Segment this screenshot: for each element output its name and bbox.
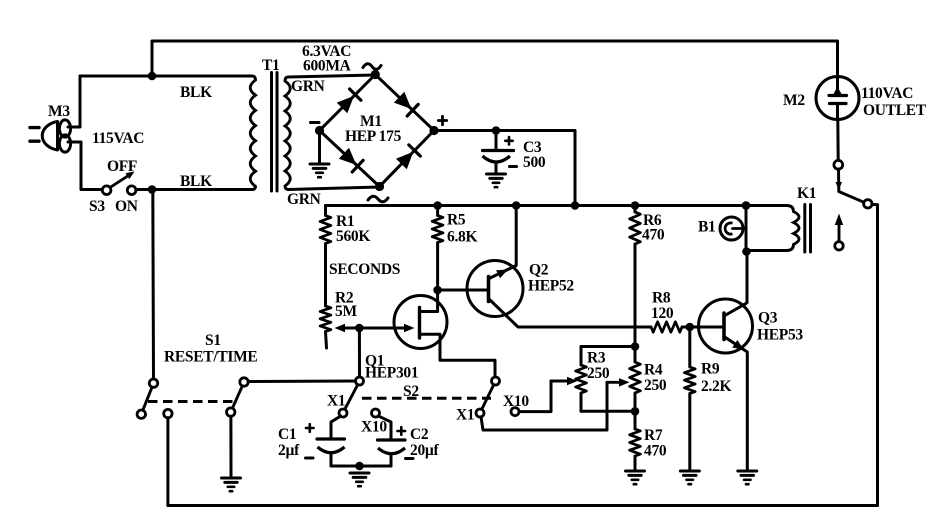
transistor Q1 source lead — [420, 334, 496, 377]
outlet M2 inner stem bottom — [836, 105, 839, 120]
rectifier M1 leg left-bottom — [320, 131, 380, 187]
ground bridge left — [310, 164, 329, 177]
wire secondary top to bridge — [289, 75, 376, 77]
label 470 R7 — [644, 443, 667, 460]
capacitor C3 lower stem — [495, 164, 498, 173]
label minus bridge — [311, 121, 320, 124]
svg-text:K1: K1 — [797, 185, 816, 202]
wire R3 left top — [580, 347, 583, 366]
svg-text:Q3: Q3 — [758, 310, 778, 327]
svg-text:OUTLET: OUTLET — [863, 102, 927, 119]
transistor Q3 emitter — [724, 337, 747, 471]
node bridge top — [371, 70, 380, 79]
svg-text:120: 120 — [651, 305, 674, 322]
node R4 bottom — [631, 407, 640, 416]
switch S2 pivot A — [356, 377, 364, 385]
svg-text:R3: R3 — [587, 350, 606, 367]
svg-text:ON: ON — [115, 198, 138, 215]
label RESET/TIME — [164, 349, 257, 366]
label C1 minus — [306, 457, 314, 460]
ground C1C2 — [350, 473, 369, 486]
label 6.8K — [447, 229, 477, 246]
label C2 — [410, 426, 429, 443]
node relay coil bottom — [742, 247, 751, 256]
wire R2 tail — [326, 332, 327, 349]
label M2 — [783, 92, 805, 109]
potentiometer R2 wiper — [335, 324, 360, 332]
wire X10 to R3 wiper — [519, 381, 551, 412]
diode M1 upper-left — [337, 89, 361, 113]
wire R5 bottom — [436, 243, 439, 291]
label Q3 — [758, 310, 778, 327]
wire R6 top — [634, 206, 637, 213]
label HEP 175 — [345, 128, 402, 145]
label OFF — [107, 158, 137, 175]
wire R3 top — [581, 345, 635, 348]
wire C1C2 bottom rail — [331, 465, 391, 468]
relay K1 coil — [746, 206, 799, 251]
lamp B1 lead — [733, 227, 747, 230]
transistor Q2 base bar — [487, 277, 491, 302]
transistor Q2 circle — [467, 261, 523, 317]
label HEP301 — [365, 365, 418, 382]
svg-text:R9: R9 — [701, 361, 720, 378]
wire plus rail — [434, 131, 575, 206]
label C3 minus — [510, 165, 517, 168]
wire Q2 base — [438, 289, 489, 292]
switch S1 pivot B — [240, 378, 248, 386]
label HEP53 — [757, 327, 803, 344]
transistor Q3 emitter arrow — [732, 340, 744, 350]
svg-text:6.8K: 6.8K — [447, 229, 477, 246]
node bus Q2 — [512, 201, 521, 210]
label X10 left — [361, 419, 387, 436]
resistor R3 — [576, 365, 587, 393]
label 560K — [336, 228, 370, 245]
svg-text:X10: X10 — [361, 419, 387, 436]
relay lever stub — [837, 169, 840, 191]
node Q1 drain junction — [433, 286, 442, 295]
svg-text:B1: B1 — [698, 219, 716, 236]
rectifier M1 leg top-right — [375, 75, 434, 131]
svg-text:X1: X1 — [456, 407, 474, 424]
plug M3 prong upper — [30, 126, 39, 129]
svg-text:GRN: GRN — [287, 191, 321, 208]
resistor R1 — [320, 216, 331, 244]
label 470 — [642, 227, 665, 244]
wire R4 bottom — [634, 393, 637, 411]
wire R5 top — [436, 206, 439, 216]
rectifier M1 leg bottom-right — [380, 131, 435, 187]
label tilde bottom — [368, 196, 388, 202]
svg-text:X1: X1 — [327, 393, 345, 410]
node bus C3 branch — [571, 201, 580, 210]
label X1 left — [327, 393, 345, 410]
svg-text:5M: 5M — [335, 303, 357, 320]
switch S2 contact X1 right — [476, 409, 484, 417]
switch S1 pivot A — [149, 379, 157, 387]
svg-text:C2: C2 — [410, 426, 429, 443]
ground R7 — [626, 471, 645, 484]
wire main bus — [326, 204, 747, 207]
switch S3 lever arrowhead — [126, 172, 135, 180]
outlet M2 inner stem top — [836, 77, 839, 93]
wire timing node down — [358, 328, 361, 377]
resistor R8 — [651, 322, 682, 332]
label M3 — [48, 103, 70, 120]
capacitor C2 stem — [390, 456, 393, 466]
ground R9 — [680, 471, 699, 484]
label Q1 — [365, 353, 384, 370]
capacitor C3 stem — [495, 131, 498, 150]
label C1 value — [278, 442, 300, 459]
label Q2 — [529, 262, 549, 279]
svg-text:M2: M2 — [783, 92, 805, 109]
node R2 wiper junction — [355, 324, 364, 333]
wire R3 left bottom — [580, 393, 583, 411]
svg-text:S1: S1 — [205, 332, 221, 349]
transistor Q3 circle — [699, 299, 753, 353]
svg-text:Q2: Q2 — [529, 262, 549, 279]
transistor Q1 drain lead — [420, 290, 438, 312]
label C1 plus — [306, 424, 314, 432]
potentiometer R4 wiper — [607, 378, 630, 387]
svg-text:20µf: 20µf — [410, 442, 440, 459]
switch S3 lever — [110, 174, 131, 188]
label C3 — [523, 139, 542, 156]
switch S1 contact A2 — [164, 409, 172, 417]
wire R9 top — [688, 327, 691, 367]
node bridge bottom — [375, 182, 384, 191]
switch S2 contact X10 left — [372, 409, 380, 417]
label SECONDS — [329, 261, 400, 278]
svg-text:2µf: 2µf — [278, 442, 300, 459]
wire secondary bottom to bridge — [289, 187, 380, 190]
node bus R5 — [433, 201, 442, 210]
label C1 — [278, 426, 296, 443]
transformer T1 core — [272, 73, 278, 192]
plug M3 ring upper — [59, 120, 70, 137]
relay armature arrow — [835, 214, 843, 242]
svg-text:250: 250 — [587, 365, 610, 382]
label X10 right — [503, 393, 529, 410]
label T1 — [262, 57, 280, 74]
rectifier M1 leg left-top — [320, 75, 376, 131]
node R3R4 top — [631, 342, 640, 351]
svg-text:HEP53: HEP53 — [757, 327, 803, 344]
label plus bridge — [438, 116, 446, 124]
wire relay contact to right rail — [872, 203, 878, 206]
transformer T1 secondary winding — [285, 77, 290, 190]
wire S3 junction down — [151, 190, 155, 380]
node junction top-left — [148, 72, 157, 81]
outlet M2 inner bar1 — [829, 94, 847, 97]
label tilde top — [363, 64, 381, 70]
mechanical link S2 dashed — [362, 397, 491, 400]
svg-text:500: 500 — [523, 154, 546, 171]
diode M1 lower-left — [339, 148, 363, 172]
svg-text:GRN: GRN — [291, 78, 325, 95]
label R3 — [587, 350, 606, 367]
diode M1 lower-right — [396, 145, 420, 169]
wire X10 to C2 — [378, 416, 391, 439]
transistor Q1 gate lead — [344, 324, 415, 332]
switch S1 lever A — [143, 387, 152, 410]
label 110VAC — [861, 85, 913, 102]
label HEP52 — [528, 278, 574, 295]
node bus R6 — [631, 201, 640, 210]
wire BLK upper — [80, 75, 252, 78]
label 120 — [651, 305, 674, 322]
svg-text:M3: M3 — [48, 103, 70, 120]
node C1C2 ground — [355, 462, 364, 471]
ground C3 — [487, 174, 506, 187]
label C3 plus — [505, 137, 512, 144]
wire relay branch — [745, 206, 748, 252]
resistor R4 — [630, 362, 641, 393]
transistor Q2 collector — [489, 206, 516, 279]
switch S1 contact B — [227, 408, 235, 416]
svg-text:S2: S2 — [403, 383, 419, 400]
svg-text:X10: X10 — [503, 393, 529, 410]
label R9 — [701, 361, 720, 378]
wire R7 top — [634, 411, 637, 429]
node bus relay — [742, 201, 751, 210]
label M1 — [360, 113, 382, 130]
label S1 — [205, 332, 221, 349]
label K1 — [797, 185, 816, 202]
resistor R5 — [432, 216, 443, 243]
lamp B1 circle — [720, 217, 743, 240]
resistor R6 — [630, 212, 641, 244]
svg-text:R7: R7 — [644, 427, 663, 444]
relay contact circle — [864, 200, 872, 208]
node bridge right — [429, 126, 438, 135]
wire R1-R2 — [324, 244, 327, 307]
diode M1 upper-right — [394, 92, 418, 116]
switch S2 pivot B — [492, 377, 500, 385]
svg-text:470: 470 — [642, 227, 665, 244]
svg-text:110VAC: 110VAC — [861, 85, 913, 102]
label X1 right — [456, 407, 474, 424]
switch S2 lever B — [482, 385, 494, 409]
mechanical link S1 dashed — [148, 400, 236, 403]
label R5 — [447, 212, 466, 229]
label OUTLET — [863, 102, 927, 119]
label S3 ON — [89, 198, 138, 215]
wire top rail — [152, 41, 838, 77]
wire plug lower lead — [68, 142, 102, 190]
svg-text:C1: C1 — [278, 426, 296, 443]
switch S2 lever A — [345, 385, 358, 410]
potentiometer R3 wiper — [551, 377, 578, 385]
wire R6 down — [634, 244, 637, 347]
resistor R7 — [630, 429, 641, 456]
svg-text:115VAC: 115VAC — [92, 130, 144, 147]
wire R1 top — [324, 206, 327, 216]
capacitor C2 curved plate — [378, 448, 405, 454]
ground bridge left stem — [318, 131, 321, 164]
ground Q3 — [738, 471, 757, 484]
label C2 value — [410, 442, 440, 459]
lamp B1 inner — [725, 223, 732, 234]
wire R4 top — [634, 347, 637, 363]
outlet M2 inner wedge — [834, 87, 842, 95]
svg-text:S3: S3 — [89, 198, 105, 215]
transistor Q3 base bar — [722, 313, 726, 340]
capacitor C2 top plate — [378, 438, 406, 441]
svg-text:R4: R4 — [644, 362, 663, 379]
label BLK lower — [180, 173, 212, 190]
transistor Q2 collector arrow — [496, 270, 508, 279]
transistor Q1 circle — [394, 296, 447, 349]
label 6.3VAC — [302, 43, 351, 60]
capacitor C1 top plate — [317, 437, 345, 440]
wire M2 to relay contact — [836, 120, 839, 161]
label S2 — [403, 383, 419, 400]
capacitor C3 top plate — [483, 149, 514, 152]
label R6 — [643, 212, 662, 229]
label GRN upper — [291, 78, 325, 95]
switch S2 contact X1 left — [339, 409, 347, 417]
wire Q3 base — [690, 326, 724, 329]
label 600MA — [303, 58, 352, 75]
label 115VAC — [92, 130, 144, 147]
wire BLK lower — [136, 188, 252, 191]
relay contact pivot circle — [834, 160, 843, 169]
wire R7 bottom — [634, 456, 637, 470]
relay armature circle — [835, 242, 843, 250]
svg-text:470: 470 — [644, 443, 667, 460]
wire S1 pivot B to timing node — [248, 380, 355, 384]
plug M3 body — [42, 122, 57, 151]
capacitor C3 curved plate — [483, 156, 511, 162]
svg-text:BLK: BLK — [180, 84, 212, 101]
label R7 — [644, 427, 663, 444]
label R4 — [644, 362, 663, 379]
wire bottom rail — [168, 504, 878, 507]
label 250 R4 — [644, 377, 667, 394]
relay K1 core — [805, 205, 811, 253]
wire S1 B to ground — [229, 416, 232, 477]
plug M3 ring lower — [59, 135, 70, 152]
node junction bottom BLK — [148, 185, 157, 194]
svg-text:R8: R8 — [652, 290, 671, 307]
transistor Q1 channel bar — [418, 308, 421, 339]
transistor Q2 emitter — [489, 299, 651, 327]
transformer T1 primary winding — [250, 76, 255, 190]
label C2 plus — [398, 427, 406, 435]
label GRN lower — [287, 191, 321, 208]
resistor R2 — [320, 306, 331, 332]
outlet M2 circle — [816, 77, 859, 120]
label B1 — [698, 219, 716, 236]
switch S1 lever B — [232, 386, 242, 408]
wire R8 to node — [682, 326, 690, 329]
capacitor C1 curved plate — [318, 447, 345, 453]
label 250 R3 — [587, 365, 610, 382]
label 2.2K — [701, 378, 731, 395]
wire plug upper lead — [68, 76, 80, 127]
ground S1 — [222, 478, 241, 491]
svg-text:SECONDS: SECONDS — [329, 261, 400, 278]
node C3 top — [492, 126, 501, 135]
node relay coil top — [742, 201, 751, 210]
label R1 — [336, 213, 354, 230]
transistor Q3 collector — [724, 252, 747, 317]
svg-text:BLK: BLK — [180, 173, 212, 190]
capacitor C1 stem — [330, 455, 333, 466]
svg-text:250: 250 — [644, 377, 667, 394]
outlet M2 inner bar2 — [830, 102, 847, 105]
relay lever diagonal — [839, 192, 864, 203]
label BLK upper — [180, 84, 212, 101]
wire X1 to C1 — [331, 416, 341, 438]
switch S3 contact right — [127, 186, 136, 195]
wire R3 bottom — [581, 410, 635, 413]
wire S1 down-left rail — [166, 418, 169, 506]
svg-text:HEP 175: HEP 175 — [345, 128, 402, 145]
label R8 — [652, 290, 671, 307]
node bridge left — [315, 126, 324, 135]
label C2 minus — [406, 457, 414, 460]
switch S3 contact left — [102, 186, 111, 195]
svg-text:HEP52: HEP52 — [528, 278, 574, 295]
label 500 — [523, 154, 546, 171]
node Q3 base — [686, 323, 695, 332]
label R2 — [335, 290, 354, 307]
wire R9 bottom — [688, 394, 691, 471]
svg-text:HEP301: HEP301 — [365, 365, 418, 382]
svg-text:600MA: 600MA — [303, 58, 352, 75]
plug M3 prong lower — [30, 139, 39, 142]
svg-text:2.2K: 2.2K — [701, 378, 731, 395]
relay lever arrow tick — [836, 182, 843, 190]
switch S2 contact X10 — [511, 408, 519, 416]
wire X1 to R4 wiper — [481, 382, 607, 430]
wire right rail — [876, 205, 879, 506]
svg-text:T1: T1 — [262, 57, 280, 74]
svg-text:R5: R5 — [447, 212, 466, 229]
switch S1 contact A1 — [137, 410, 145, 418]
label 5M — [335, 303, 357, 320]
svg-text:560K: 560K — [336, 228, 370, 245]
svg-text:RESET/TIME: RESET/TIME — [164, 349, 257, 366]
resistor R9 — [684, 367, 695, 394]
